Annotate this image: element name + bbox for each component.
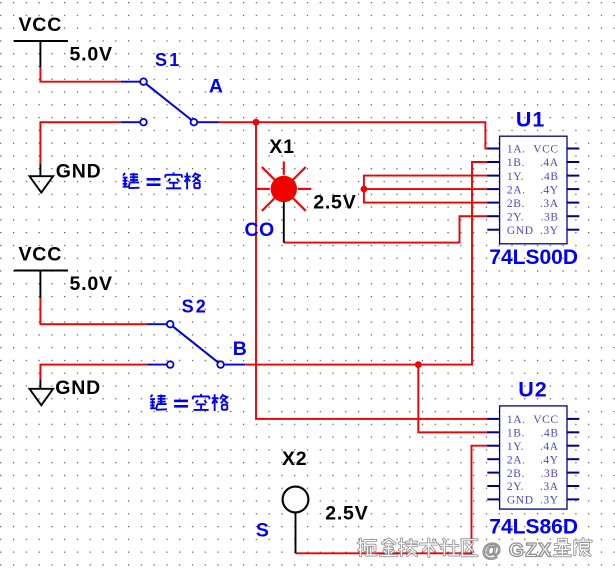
switch S1 [121, 78, 219, 125]
svg-text:S2: S2 [182, 296, 208, 316]
svg-text:X2: X2 [282, 448, 307, 470]
svg-text:.3A: .3A [540, 198, 559, 210]
svg-text:S1: S1 [155, 50, 181, 70]
power VCC1 symbol [14, 40, 68, 67]
svg-text:2.5V: 2.5V [325, 502, 368, 524]
op-amp U1 quad NAND 74LS00D [487, 136, 579, 244]
svg-text:.4A: .4A [540, 441, 559, 453]
svg-text:1A.: 1A. [507, 414, 526, 426]
wire VCC2 to S2 top contact [40, 298, 147, 324]
svg-text:5.0V: 5.0V [70, 273, 113, 295]
svg-text:.3B: .3B [541, 211, 559, 223]
svg-text:@ GZX: @ GZX [482, 539, 553, 561]
svg-text:1Y.: 1Y. [507, 171, 524, 183]
wire S1 bottom contact to GND1 [40, 122, 120, 164]
svg-text:S: S [256, 519, 269, 541]
svg-text:1B.: 1B. [507, 157, 525, 169]
wire U1 pin 2Y to lamp X1 [284, 216, 489, 242]
wire U2 pin 1Y to probe X2 [296, 446, 490, 554]
svg-text:.3Y: .3Y [540, 225, 559, 237]
svg-text:5.0V: 5.0V [70, 44, 113, 66]
svg-text:2Y.: 2Y. [507, 481, 524, 493]
svg-text:1A.: 1A. [507, 144, 526, 156]
svg-text:74LS86D: 74LS86D [489, 515, 578, 538]
lamp X1 (lit probe, CO) [256, 161, 311, 242]
svg-text:.4Y: .4Y [540, 184, 559, 196]
S1 key hint 键 = 空格 [123, 172, 201, 189]
svg-text:.3B: .3B [541, 468, 559, 480]
svg-text:GND: GND [56, 161, 102, 183]
ground GND1 [30, 164, 54, 192]
S2 key hint 键 = 空格 [150, 394, 228, 411]
svg-text:GND: GND [55, 377, 101, 399]
svg-text:.3Y: .3Y [540, 495, 559, 507]
svg-text:.3A: .3A [540, 481, 559, 493]
node A junction [253, 119, 260, 126]
svg-text:VCC: VCC [533, 414, 558, 426]
svg-text:GND: GND [507, 225, 534, 237]
power VCC2 symbol [14, 270, 68, 299]
svg-text:A: A [209, 76, 223, 98]
svg-text:U1: U1 [516, 108, 545, 132]
watermark 掘金技术社区 @ GZX墨痕 [358, 539, 591, 562]
wire S2 bottom contact to GND2 [40, 365, 147, 380]
ground GND2 [30, 380, 54, 406]
wire U1 2A from junction [364, 188, 489, 190]
wire U1 1Y to 2A/2B feedback column [364, 176, 489, 203]
svg-text:.4Y: .4Y [540, 454, 559, 466]
wire S1 pole to node A to U1 pin 1A [219, 122, 490, 148]
svg-text:1Y.: 1Y. [507, 441, 524, 453]
svg-text:X1: X1 [269, 136, 294, 158]
svg-text:2.5V: 2.5V [313, 191, 356, 213]
switch S2 [148, 321, 246, 368]
svg-text:VCC: VCC [19, 14, 63, 36]
svg-text:U2: U2 [518, 378, 547, 402]
svg-text:2A.: 2A. [507, 184, 526, 196]
svg-text:2B.: 2B. [507, 468, 525, 480]
svg-text:VCC: VCC [19, 243, 63, 265]
svg-text:.4A: .4A [540, 157, 559, 169]
svg-text:2Y.: 2Y. [507, 211, 524, 223]
svg-text:CO: CO [245, 219, 275, 241]
svg-text:VCC: VCC [533, 144, 558, 156]
svg-text:74LS00D: 74LS00D [489, 246, 578, 269]
svg-text:.4B: .4B [541, 428, 559, 440]
svg-text:.4B: .4B [541, 171, 559, 183]
svg-text:GND: GND [507, 495, 534, 507]
junction on 1Y-2A-2B column [361, 186, 368, 193]
wire node A down to U2 pin 1A [256, 122, 489, 419]
svg-text:2A.: 2A. [507, 454, 526, 466]
wire S2 pole node B up to U1 pin 1B [245, 162, 489, 365]
svg-text:B: B [233, 338, 247, 360]
svg-text:1B.: 1B. [507, 428, 525, 440]
svg-text:2B.: 2B. [507, 198, 525, 210]
op-amp U2 quad XOR 74LS86D [487, 406, 579, 509]
probe X2 (off, S) [283, 487, 309, 554]
wire VCC1 to S1 top contact [40, 67, 120, 82]
node B junction [415, 361, 422, 368]
wire node B down to U2 pin 1B [418, 365, 489, 433]
